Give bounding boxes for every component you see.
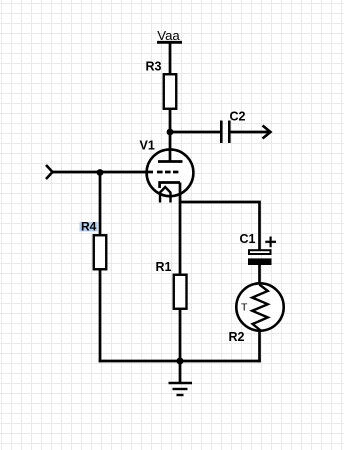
wire node A to C2 bbox=[170, 131, 221, 134]
wire node A to V1 anode bbox=[169, 132, 172, 162]
svg-text:C1: C1 bbox=[240, 232, 256, 246]
wire C1 to R2 bbox=[258, 265, 261, 284]
svg-text:Vaa: Vaa bbox=[157, 28, 180, 43]
wire Vaa to R3 bbox=[169, 43, 172, 75]
wire C2 to output bbox=[229, 131, 270, 134]
thermistor R2 envelope bbox=[236, 283, 283, 330]
triode V1 anode bbox=[158, 160, 183, 163]
power rail Vaa bar bbox=[157, 41, 182, 44]
bottom rail wire bbox=[99, 360, 261, 363]
capacitor C1 polarity plus bbox=[265, 237, 276, 248]
triode V1 envelope bbox=[147, 149, 194, 196]
resistor R1 label bbox=[156, 260, 172, 274]
capacitor C2 label bbox=[230, 110, 246, 124]
net label Vaa bbox=[157, 28, 180, 43]
thermistor R2 label bbox=[229, 330, 245, 344]
wire input to V1 grid bbox=[53, 171, 154, 174]
thermistor R2 T marking bbox=[241, 301, 248, 313]
svg-text:R1: R1 bbox=[156, 260, 172, 274]
capacitor C1 bbox=[248, 250, 272, 265]
input terminal bbox=[46, 165, 53, 179]
wire R1 to ground node bbox=[179, 309, 182, 362]
node B junction dot bbox=[97, 169, 104, 176]
svg-text:R2: R2 bbox=[229, 330, 245, 344]
triode V1 heater bbox=[160, 187, 171, 203]
node A junction dot bbox=[167, 129, 174, 136]
thermistor R2 zigzag bbox=[252, 283, 268, 332]
output arrow bbox=[263, 126, 271, 139]
capacitor C1 label bbox=[240, 232, 256, 246]
triode V1 cathode bbox=[160, 183, 180, 189]
resistor R4 bbox=[94, 235, 107, 269]
resistor R1 bbox=[174, 275, 187, 309]
svg-text:T: T bbox=[241, 301, 248, 313]
resistor R4 label highlight bbox=[80, 222, 98, 232]
svg-text:V1: V1 bbox=[140, 139, 155, 153]
ground node junction dot bbox=[177, 358, 184, 365]
resistor R3 bbox=[164, 74, 177, 109]
wire R2 to bottom rail bbox=[258, 331, 261, 362]
wire R3 to node A bbox=[169, 109, 172, 132]
resistor R3 label bbox=[146, 60, 162, 74]
triode V1 label bbox=[140, 139, 155, 153]
capacitor C2 bbox=[221, 121, 229, 144]
wire cathode tee to C1 bbox=[180, 202, 260, 250]
svg-text:C2: C2 bbox=[230, 110, 246, 124]
svg-text:R4: R4 bbox=[81, 220, 97, 234]
resistor R4 label bbox=[81, 220, 97, 234]
wire R4 to bottom rail bbox=[99, 269, 102, 362]
ground bbox=[169, 361, 193, 395]
wire node B to R4 bbox=[99, 173, 102, 236]
svg-text:R3: R3 bbox=[146, 60, 162, 74]
wire V1 cathode to R1 bbox=[179, 183, 182, 275]
triode V1 grid (dashed) bbox=[157, 171, 178, 174]
